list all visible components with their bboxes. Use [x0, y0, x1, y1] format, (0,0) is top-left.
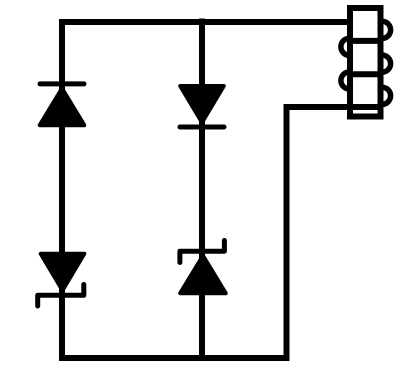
wire top rail [59, 19, 353, 25]
inductor L1 left loop 1 [341, 38, 350, 55]
inductor L1 body frame [350, 8, 381, 117]
inductor L1 right loop 3 [382, 87, 391, 104]
inductor L1 right loop 2 [382, 55, 391, 72]
wire left vertical [59, 19, 65, 361]
diode D2 triangle [41, 254, 85, 291]
wire right vertical [284, 104, 290, 361]
inductor L1 left loop 2 [341, 72, 350, 89]
diode D3 triangle [180, 86, 224, 123]
wire right horizontal to coil [284, 104, 381, 110]
inductor L1 divider 2 [347, 71, 384, 77]
diode D1 cathode bar [40, 81, 84, 86]
diode D2 zener bar [38, 285, 84, 307]
diode D1 triangle [40, 88, 85, 125]
inductor L1 divider 1 [347, 38, 384, 44]
diode D4 triangle [180, 256, 226, 294]
inductor L1 right loop 1 [382, 21, 391, 38]
wire middle vertical [199, 19, 205, 359]
diode D4 zener bar [180, 241, 225, 263]
diode D3 cathode bar [180, 125, 224, 130]
wire bottom rail [59, 355, 290, 361]
